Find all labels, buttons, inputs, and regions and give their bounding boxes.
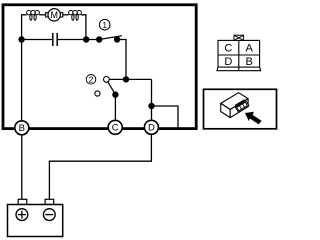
svg-text:C: C: [224, 43, 232, 55]
wire: top-left horizontal into inductor: [21, 14, 27, 16]
label 2 (circled): [86, 75, 96, 85]
switch 1 (blade with two contact dots): [99, 36, 122, 40]
svg-text:D: D: [224, 56, 232, 68]
svg-text:A: A: [246, 43, 254, 55]
inductor L2 (right coil): [69, 10, 82, 20]
terminal C: [108, 120, 122, 134]
pointer arrow: [245, 112, 262, 125]
wire: terminal B down to battery positive post: [21, 129, 23, 200]
capacitor C1: [53, 33, 57, 46]
wire: branch from D net right and down to case: [152, 106, 179, 128]
battery positive terminal symbol: [16, 209, 28, 221]
junction node (capacitor/motor branch): [83, 36, 89, 42]
connector socket outer face: [235, 101, 249, 113]
svg-text:B: B: [19, 123, 25, 134]
switch 2 open throw contact: [95, 91, 100, 96]
svg-text:1: 1: [102, 20, 107, 30]
wire: inductor L1 to motor left brush: [39, 14, 46, 16]
connector view box: [204, 89, 277, 129]
connector socket pin slots: [240, 104, 245, 109]
svg-text:M: M: [50, 10, 58, 20]
svg-text:D: D: [148, 123, 155, 134]
wire: switch 1 right contact down to switch 2 node: [117, 40, 126, 80]
connector 3D body: [221, 93, 248, 118]
connector socket chamfer line: [235, 100, 245, 106]
wire: motor right brush to inductor L2: [63, 14, 69, 16]
terminal D: [144, 120, 158, 134]
battery negative terminal symbol: [43, 209, 55, 221]
connector pinout table: [217, 40, 261, 70]
motor M1 (circle with M and brush tabs): [46, 9, 63, 21]
connector socket inner face: [237, 102, 248, 111]
label 1 (circled): [99, 19, 110, 30]
terminal B: [15, 121, 29, 135]
battery BT1: [8, 199, 63, 236]
wire: left vertical from motor branch down to terminal B: [21, 15, 23, 121]
switch 2 (blade from pivot to open contact): [106, 79, 116, 96]
inductor L1 (left coil): [27, 10, 40, 20]
wire: capacitor to switch 1 left contact: [58, 39, 99, 41]
wire: switch 2 pivot down to terminal C: [114, 95, 116, 121]
wire: inductor L2 right then down to capacitor node: [81, 15, 86, 40]
wire: node at left wire to capacitor: [22, 39, 52, 41]
junction node (D net branch): [148, 103, 154, 109]
svg-text:2: 2: [89, 74, 94, 84]
svg-text:B: B: [246, 56, 253, 68]
wire: switch 2 contact to right vertical drop: [106, 78, 151, 80]
main circuit enclosure box: [3, 5, 196, 129]
wire: terminal D down, left, down to battery negative post: [49, 129, 151, 200]
wire: vertical drop to terminal D: [151, 79, 153, 121]
switch 2 pivot node: [112, 91, 118, 97]
connector key (box with X): [234, 35, 244, 40]
junction node (switch1/switch2 net): [123, 76, 129, 82]
svg-text:C: C: [112, 123, 119, 134]
junction node (left, on B wire): [18, 36, 24, 42]
